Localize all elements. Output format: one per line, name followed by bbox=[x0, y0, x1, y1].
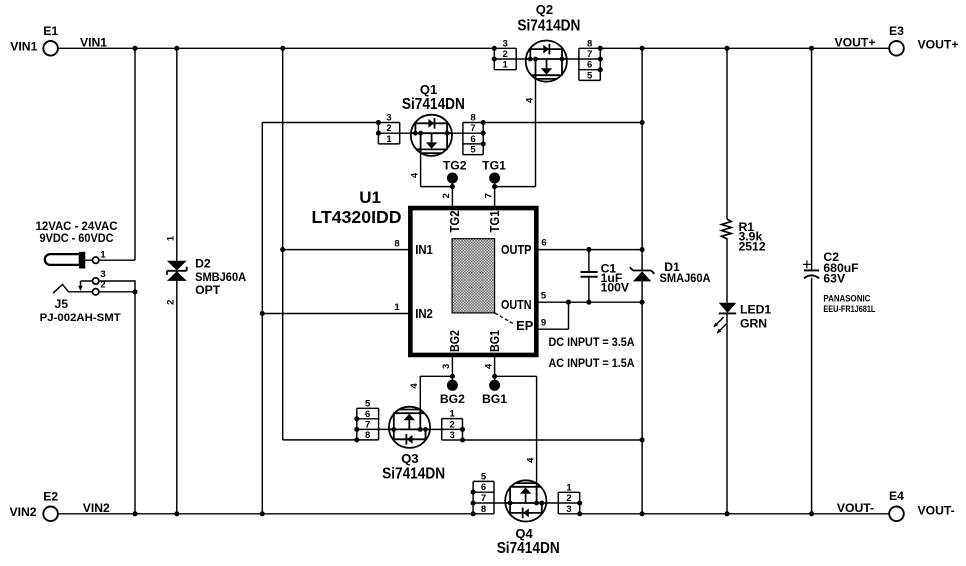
svg-text:VOUT+: VOUT+ bbox=[918, 38, 959, 52]
svg-text:TG1: TG1 bbox=[487, 211, 502, 233]
svg-text:5: 5 bbox=[541, 291, 547, 302]
svg-text:Si7414DN: Si7414DN bbox=[382, 466, 445, 483]
svg-text:2: 2 bbox=[566, 493, 571, 504]
svg-text:3: 3 bbox=[441, 364, 452, 369]
svg-text:8: 8 bbox=[481, 504, 486, 515]
svg-text:Q1: Q1 bbox=[420, 82, 437, 97]
svg-text:6: 6 bbox=[470, 134, 475, 145]
svg-text:5: 5 bbox=[587, 70, 593, 81]
svg-text:5: 5 bbox=[365, 398, 371, 409]
svg-text:PANASONIC: PANASONIC bbox=[823, 294, 871, 304]
svg-text:1: 1 bbox=[386, 134, 392, 145]
svg-text:VOUT-: VOUT- bbox=[837, 501, 874, 515]
svg-text:8: 8 bbox=[587, 38, 592, 49]
svg-text:2: 2 bbox=[100, 280, 105, 291]
svg-text:PJ-002AH-SMT: PJ-002AH-SMT bbox=[40, 312, 121, 324]
svg-text:63V: 63V bbox=[823, 272, 846, 286]
svg-text:2: 2 bbox=[441, 193, 452, 198]
svg-text:3: 3 bbox=[386, 113, 391, 124]
svg-text:7: 7 bbox=[481, 493, 486, 504]
svg-text:LED1: LED1 bbox=[740, 302, 771, 316]
svg-text:SMAJ60A: SMAJ60A bbox=[660, 271, 711, 285]
svg-text:2: 2 bbox=[503, 49, 508, 60]
svg-text:Si7414DN: Si7414DN bbox=[402, 96, 465, 113]
svg-text:Si7414DN: Si7414DN bbox=[497, 540, 560, 557]
svg-text:8: 8 bbox=[470, 113, 475, 124]
svg-text:8: 8 bbox=[365, 430, 370, 441]
svg-text:2: 2 bbox=[449, 419, 454, 430]
svg-text:7: 7 bbox=[470, 123, 475, 134]
svg-text:VIN1: VIN1 bbox=[80, 36, 107, 50]
svg-text:9VDC - 60VDC: 9VDC - 60VDC bbox=[40, 231, 114, 245]
svg-text:BG1: BG1 bbox=[487, 330, 502, 352]
svg-text:VOUT+: VOUT+ bbox=[835, 36, 876, 50]
svg-text:1: 1 bbox=[394, 302, 400, 313]
svg-text:100V: 100V bbox=[601, 281, 630, 295]
svg-text:9: 9 bbox=[541, 318, 546, 329]
svg-text:BG2: BG2 bbox=[440, 392, 465, 406]
svg-text:TG2: TG2 bbox=[443, 159, 467, 173]
svg-text:DC INPUT = 3.5A: DC INPUT = 3.5A bbox=[549, 335, 635, 349]
svg-text:6: 6 bbox=[541, 238, 546, 249]
svg-text:6: 6 bbox=[481, 482, 486, 493]
svg-text:Q4: Q4 bbox=[515, 526, 533, 541]
svg-text:6: 6 bbox=[365, 409, 370, 420]
svg-text:3: 3 bbox=[503, 38, 508, 49]
svg-text:J5: J5 bbox=[55, 297, 69, 311]
svg-text:Q2: Q2 bbox=[536, 2, 553, 17]
svg-text:3: 3 bbox=[100, 269, 105, 280]
svg-text:E2: E2 bbox=[43, 489, 58, 503]
svg-text:EP: EP bbox=[516, 318, 534, 333]
svg-text:7: 7 bbox=[365, 419, 370, 430]
svg-text:4: 4 bbox=[409, 383, 420, 389]
svg-text:E4: E4 bbox=[889, 489, 904, 503]
svg-text:4: 4 bbox=[525, 457, 536, 463]
svg-text:D2: D2 bbox=[195, 257, 211, 271]
svg-text:IN2: IN2 bbox=[415, 306, 433, 321]
svg-text:TG2: TG2 bbox=[447, 211, 462, 233]
svg-text:VIN2: VIN2 bbox=[83, 501, 110, 515]
svg-text:VIN2: VIN2 bbox=[9, 505, 36, 519]
svg-text:1: 1 bbox=[449, 409, 455, 420]
svg-text:1: 1 bbox=[503, 60, 509, 71]
svg-text:BG1: BG1 bbox=[482, 392, 507, 406]
svg-text:AC INPUT = 1.5A: AC INPUT = 1.5A bbox=[549, 356, 635, 370]
svg-text:6: 6 bbox=[587, 60, 592, 71]
svg-text:2: 2 bbox=[166, 300, 177, 305]
svg-text:3: 3 bbox=[449, 430, 454, 441]
svg-text:VOUT-: VOUT- bbox=[918, 504, 955, 518]
svg-text:OUTP: OUTP bbox=[501, 242, 532, 257]
svg-text:7: 7 bbox=[587, 49, 592, 60]
svg-text:LT4320IDD: LT4320IDD bbox=[312, 207, 402, 227]
svg-text:1: 1 bbox=[100, 249, 106, 260]
svg-text:OPT: OPT bbox=[195, 283, 221, 297]
svg-text:VIN1: VIN1 bbox=[10, 40, 37, 54]
svg-text:E1: E1 bbox=[43, 24, 58, 38]
svg-text:Si7414DN: Si7414DN bbox=[517, 18, 580, 35]
svg-text:E3: E3 bbox=[889, 24, 904, 38]
svg-text:TG1: TG1 bbox=[482, 159, 506, 173]
svg-text:BG2: BG2 bbox=[447, 330, 462, 352]
svg-text:4: 4 bbox=[483, 363, 494, 369]
svg-text:U1: U1 bbox=[359, 188, 381, 207]
svg-text:8: 8 bbox=[394, 239, 399, 250]
svg-text:OUTN: OUTN bbox=[501, 297, 532, 312]
svg-text:Q3: Q3 bbox=[401, 451, 418, 466]
svg-text:5: 5 bbox=[470, 145, 476, 156]
svg-text:7: 7 bbox=[483, 193, 494, 198]
svg-text:IN1: IN1 bbox=[415, 242, 433, 257]
svg-text:1: 1 bbox=[166, 235, 177, 241]
svg-text:5: 5 bbox=[481, 471, 487, 482]
svg-text:4: 4 bbox=[409, 172, 420, 178]
svg-text:GRN: GRN bbox=[740, 317, 767, 331]
svg-text:1: 1 bbox=[566, 482, 572, 493]
svg-text:3: 3 bbox=[566, 504, 571, 515]
svg-text:SMBJ60A: SMBJ60A bbox=[195, 270, 246, 284]
svg-text:EEU-FR1J681L: EEU-FR1J681L bbox=[823, 304, 876, 314]
svg-text:2512: 2512 bbox=[739, 240, 766, 254]
svg-text:2: 2 bbox=[386, 123, 391, 134]
svg-text:4: 4 bbox=[524, 97, 535, 103]
